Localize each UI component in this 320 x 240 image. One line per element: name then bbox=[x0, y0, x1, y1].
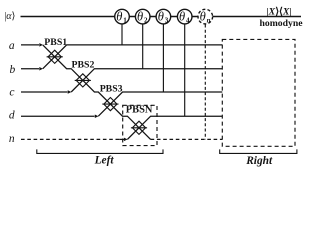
svg-text:homodyne: homodyne bbox=[260, 18, 304, 29]
svg-text:PBS2: PBS2 bbox=[72, 59, 95, 70]
wire: input n (dashed) bbox=[21, 138, 119, 140]
wire: b diagonal up through PBS1 to a rail bbox=[43, 45, 223, 69]
svg-text:PBS3: PBS3 bbox=[100, 84, 123, 95]
svg-text:|X⟩⟨X|: |X⟩⟨X| bbox=[267, 7, 292, 18]
node c label bbox=[9, 87, 14, 99]
svg-text:Right: Right bbox=[245, 155, 273, 167]
wire: input c bbox=[21, 91, 67, 93]
phase shifter theta1 bbox=[115, 9, 130, 24]
svg-text:3: 3 bbox=[165, 16, 169, 24]
wire: d diagonal up through PBS3 to c rail bbox=[98, 92, 222, 116]
arrow on wire a bbox=[39, 43, 43, 47]
dashed box Right region bbox=[222, 39, 295, 146]
svg-text:a: a bbox=[9, 40, 15, 52]
phase shifter theta2 bbox=[135, 9, 150, 24]
phase shifter theta3 bbox=[156, 9, 171, 24]
svg-text:θ: θ bbox=[200, 10, 206, 24]
beam splitter PBS3 bbox=[102, 98, 118, 111]
wire: theta1 control drop to rail a bbox=[121, 25, 123, 45]
node n label bbox=[9, 133, 15, 145]
svg-text:PBSN: PBSN bbox=[126, 105, 153, 116]
wire: PBSN lower output to n rail (dashed continues right) bbox=[151, 138, 223, 140]
node a label bbox=[9, 40, 15, 52]
svg-text:n: n bbox=[207, 16, 211, 24]
PBS2 label bbox=[72, 59, 95, 70]
brace under Left section bbox=[37, 149, 163, 153]
wire: input b bbox=[21, 68, 39, 70]
wire: theta3 control drop to rail c bbox=[162, 25, 164, 93]
homodyne detector label |X><X| bbox=[267, 7, 292, 18]
PBS3 label bbox=[100, 84, 123, 95]
beam splitter PBS2 bbox=[75, 74, 91, 87]
arrow on wire d bbox=[95, 114, 99, 118]
svg-text:θ: θ bbox=[116, 10, 122, 24]
node b label bbox=[10, 64, 16, 76]
wire: a diagonal down through PBS1, PBS2, PBS3 into PBSN bbox=[43, 45, 151, 139]
label Right bbox=[245, 155, 273, 167]
svg-text:4: 4 bbox=[186, 16, 190, 24]
phase shifter theta_n (dashed) bbox=[198, 9, 213, 24]
beam splitter PBS1 bbox=[47, 50, 63, 63]
svg-text:θ: θ bbox=[158, 10, 164, 24]
wire: input n solid stub into PBSN box bbox=[119, 138, 124, 140]
PBSN label bbox=[126, 105, 153, 116]
wire: theta4 control drop to rail d bbox=[184, 25, 186, 117]
phase shifter theta4 bbox=[177, 9, 192, 24]
arrow on wire n bbox=[124, 138, 128, 142]
svg-text:d: d bbox=[9, 110, 15, 122]
svg-text:θ: θ bbox=[179, 10, 185, 24]
wire: n diagonal up through PBSN to d rail bbox=[127, 116, 222, 139]
svg-text:|α⟩: |α⟩ bbox=[4, 11, 15, 22]
svg-text:1: 1 bbox=[123, 16, 127, 24]
node d label bbox=[9, 110, 15, 122]
svg-text:θ: θ bbox=[137, 10, 143, 24]
wire: input d bbox=[21, 115, 95, 117]
svg-text:b: b bbox=[10, 64, 16, 76]
arrow on wire c bbox=[68, 90, 72, 94]
brace under Right section bbox=[220, 149, 297, 153]
svg-text:c: c bbox=[9, 87, 14, 99]
svg-text:2: 2 bbox=[144, 16, 148, 24]
PBS1 label bbox=[44, 37, 67, 48]
homodyne label bbox=[260, 18, 304, 29]
beam splitter PBSN bbox=[131, 121, 147, 134]
node |alpha> input label bbox=[4, 11, 15, 22]
svg-text:n: n bbox=[9, 133, 15, 145]
svg-text:Left: Left bbox=[94, 155, 115, 167]
wire: top rail from |alpha> to homodyne bbox=[21, 16, 302, 18]
wire: c diagonal up through PBS2 to b rail bbox=[71, 69, 222, 92]
arrow on wire b bbox=[39, 67, 43, 71]
wire: input a bbox=[21, 44, 39, 46]
wire: theta2 control drop to rail b bbox=[142, 25, 144, 69]
wire: theta_n control drop to rail n (dashed) bbox=[204, 25, 206, 140]
dashed box around PBSN bbox=[123, 105, 157, 145]
svg-text:PBS1: PBS1 bbox=[44, 37, 67, 48]
label Left bbox=[94, 155, 115, 167]
